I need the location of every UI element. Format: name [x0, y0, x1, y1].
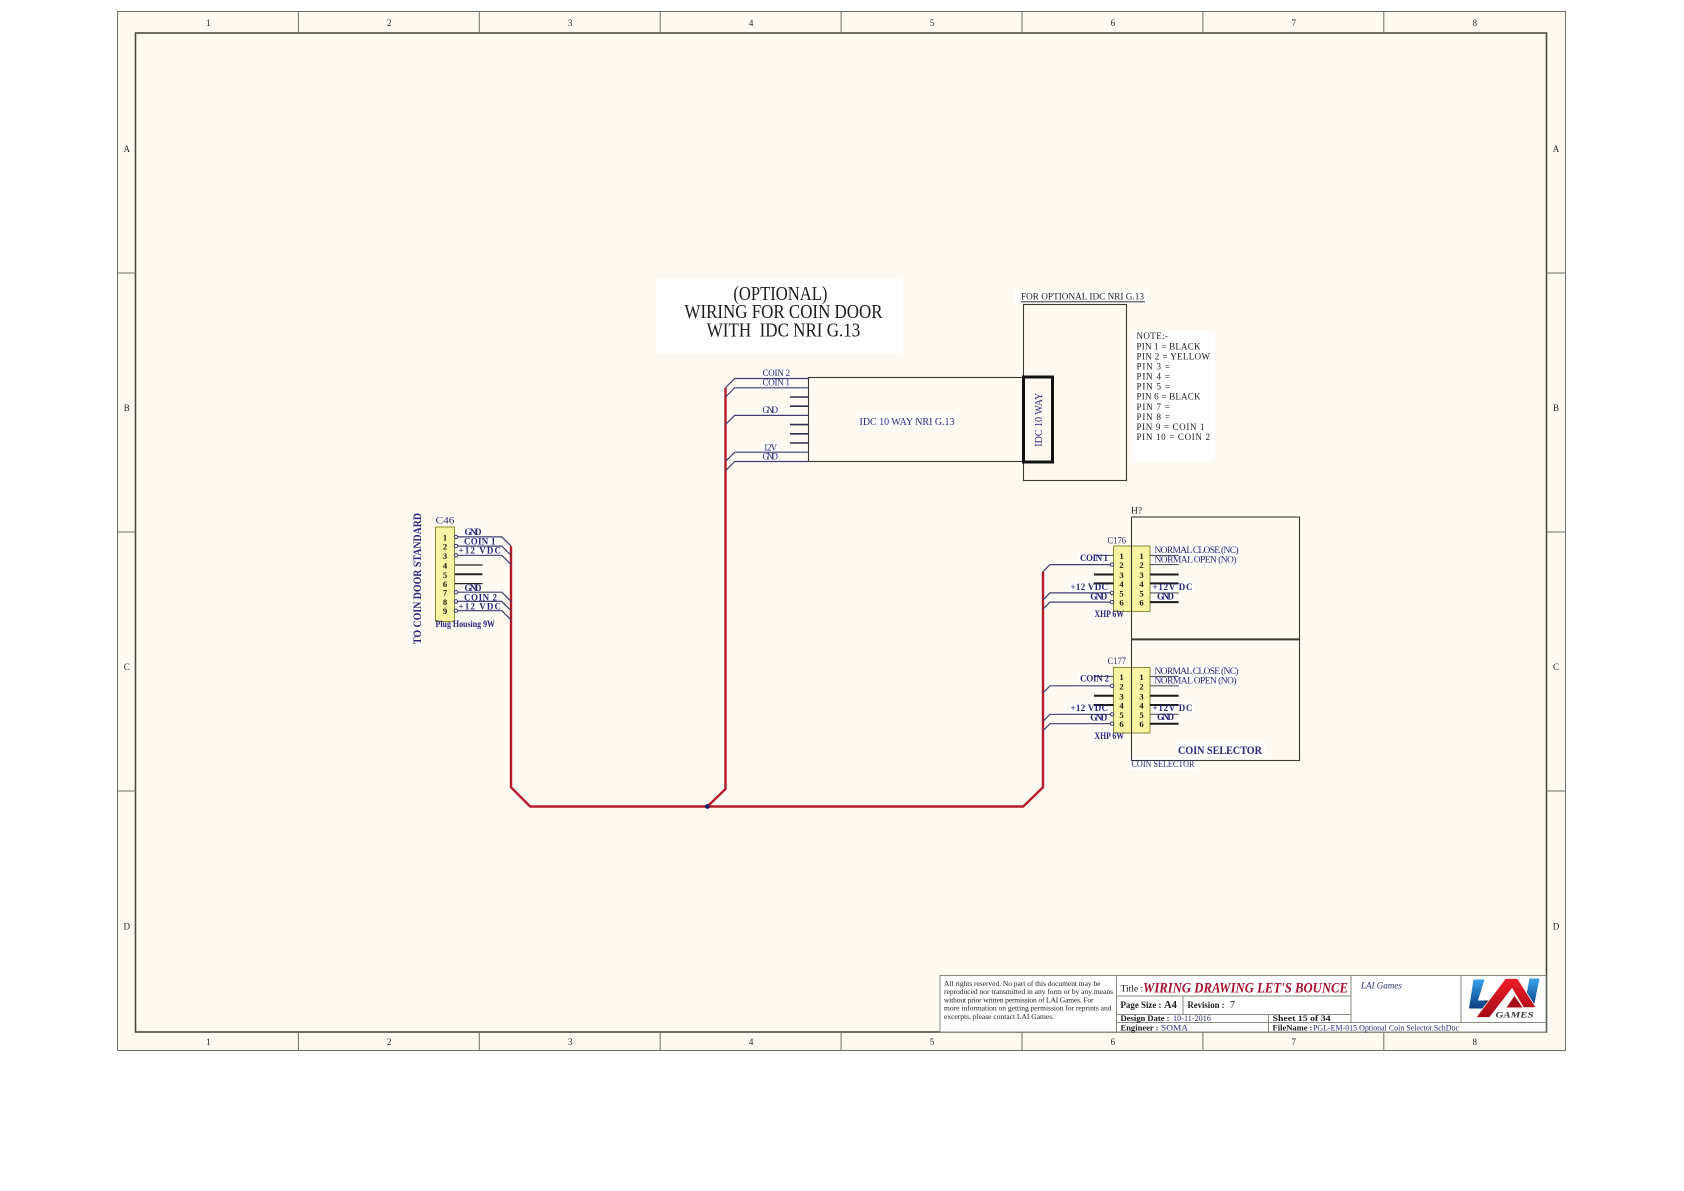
- svg-text:D: D: [1553, 921, 1560, 931]
- svg-text:PIN 8 =: PIN 8 =: [1137, 412, 1171, 422]
- svg-text:A4: A4: [1164, 1000, 1178, 1011]
- svg-text:2: 2: [387, 1037, 392, 1047]
- svg-text:D: D: [124, 921, 131, 931]
- svg-text:PIN 2 = YELLOW: PIN 2 = YELLOW: [1137, 351, 1211, 361]
- svg-text:PIN 9 = COIN 1: PIN 9 = COIN 1: [1137, 422, 1205, 432]
- svg-text:PIN 7 =: PIN 7 =: [1137, 402, 1171, 412]
- svg-text:PIN 4 =: PIN 4 =: [1137, 372, 1171, 382]
- svg-text:Title :: Title :: [1121, 985, 1144, 995]
- svg-text:C46: C46: [436, 516, 455, 526]
- svg-text:6: 6: [1139, 598, 1144, 608]
- svg-text:COIN SELECTOR: COIN SELECTOR: [1178, 743, 1262, 757]
- svg-text:GND: GND: [1090, 712, 1108, 722]
- svg-text:excerpts, please contact LAI G: excerpts, please contact LAI Games.: [944, 1012, 1054, 1021]
- svg-text:H?: H?: [1131, 507, 1142, 517]
- svg-text:2: 2: [1139, 681, 1143, 691]
- svg-text:3: 3: [443, 551, 447, 561]
- svg-text:Design Date :: Design Date :: [1121, 1014, 1170, 1023]
- svg-text:GAMES: GAMES: [1496, 1011, 1535, 1020]
- svg-text:1: 1: [206, 18, 211, 28]
- svg-text:+12 VDC: +12 VDC: [459, 602, 502, 612]
- svg-text:NORMAL OPEN (NO): NORMAL OPEN (NO): [1155, 554, 1237, 565]
- svg-text:C177: C177: [1108, 656, 1127, 666]
- svg-text:Revision :: Revision :: [1188, 1000, 1225, 1010]
- svg-text:Page Size :: Page Size :: [1121, 1000, 1162, 1010]
- svg-text:COIN 1: COIN 1: [763, 377, 791, 387]
- svg-text:COIN 2: COIN 2: [1080, 674, 1110, 684]
- svg-text:LAI Games: LAI Games: [1360, 981, 1402, 991]
- svg-text:GND: GND: [1157, 712, 1175, 722]
- svg-text:7: 7: [1292, 1037, 1297, 1047]
- svg-text:Engineer :: Engineer :: [1121, 1023, 1159, 1032]
- svg-text:5: 5: [930, 1037, 935, 1047]
- svg-text:2: 2: [1119, 560, 1123, 570]
- svg-text:2: 2: [387, 18, 392, 28]
- svg-text:XHP 6W: XHP 6W: [1095, 731, 1125, 741]
- svg-text:B: B: [1553, 403, 1559, 413]
- svg-text:3: 3: [568, 18, 573, 28]
- svg-text:NORMAL OPEN (NO): NORMAL OPEN (NO): [1155, 675, 1237, 686]
- svg-text:IDC 10 WAY: IDC 10 WAY: [1034, 393, 1045, 447]
- svg-text:C: C: [124, 662, 130, 672]
- svg-text:4: 4: [1119, 579, 1124, 589]
- svg-text:8: 8: [1472, 18, 1477, 28]
- svg-text:XHP 6W: XHP 6W: [1095, 609, 1125, 619]
- svg-text:WIRING DRAWING LET'S BOUNCE: WIRING DRAWING LET'S BOUNCE: [1143, 981, 1348, 997]
- svg-text:10-11-2016: 10-11-2016: [1173, 1014, 1211, 1023]
- svg-text:Plug Housing 9W: Plug Housing 9W: [436, 619, 496, 629]
- svg-text:PIN 5 =: PIN 5 =: [1137, 382, 1171, 392]
- svg-text:FileName :: FileName :: [1273, 1023, 1313, 1032]
- svg-text:A: A: [1553, 144, 1560, 154]
- svg-text:GND: GND: [763, 452, 779, 462]
- svg-text:PIN 3 =: PIN 3 =: [1137, 362, 1171, 372]
- svg-text:TO COIN DOOR STANDARD: TO COIN DOOR STANDARD: [412, 513, 424, 644]
- svg-text:C176: C176: [1108, 535, 1127, 545]
- svg-text:C: C: [1553, 662, 1559, 672]
- svg-text:6: 6: [1119, 598, 1124, 608]
- svg-text:B: B: [124, 403, 130, 413]
- svg-text:GND: GND: [1157, 591, 1175, 601]
- svg-text:WITH IDC NRI G.13: WITH IDC NRI G.13: [707, 320, 861, 341]
- svg-text:1: 1: [206, 1037, 211, 1047]
- svg-text:4: 4: [1139, 579, 1144, 589]
- svg-text:COIN 1: COIN 1: [1080, 553, 1109, 563]
- svg-text:4: 4: [749, 18, 754, 28]
- svg-text:3: 3: [568, 1037, 573, 1047]
- svg-text:8: 8: [1472, 1037, 1477, 1047]
- svg-text:GND: GND: [763, 405, 779, 415]
- svg-text:9: 9: [443, 606, 447, 616]
- svg-text:+12 VDC: +12 VDC: [459, 546, 502, 556]
- svg-text:6: 6: [1139, 719, 1144, 729]
- svg-text:COIN SELECTOR: COIN SELECTOR: [1132, 760, 1196, 770]
- svg-text:2: 2: [1119, 681, 1123, 691]
- svg-text:6: 6: [1111, 18, 1116, 28]
- svg-text:2: 2: [1139, 560, 1143, 570]
- svg-text:FOR OPTIONAL IDC NRI G.13: FOR OPTIONAL IDC NRI G.13: [1021, 292, 1144, 303]
- svg-text:PIN 10 = COIN 2: PIN 10 = COIN 2: [1137, 432, 1211, 442]
- svg-text:IDC 10 WAY NRI G.13: IDC 10 WAY NRI G.13: [860, 417, 955, 428]
- svg-text:5: 5: [930, 18, 935, 28]
- svg-text:PIN 6 = BLACK: PIN 6 = BLACK: [1137, 392, 1202, 402]
- svg-text:A: A: [124, 144, 131, 154]
- svg-text:7: 7: [1230, 1000, 1235, 1011]
- svg-text:GND: GND: [1090, 592, 1108, 602]
- svg-text:Sheet 15 of 34: Sheet 15 of 34: [1273, 1014, 1331, 1023]
- svg-text:PGL-EM-015 Optional Coin Selec: PGL-EM-015 Optional Coin Selector.SchDoc: [1313, 1023, 1459, 1032]
- svg-text:SOMA: SOMA: [1161, 1023, 1188, 1032]
- svg-text:6: 6: [1111, 1037, 1116, 1047]
- svg-text:NOTE:-: NOTE:-: [1137, 331, 1169, 341]
- svg-text:7: 7: [1292, 18, 1297, 28]
- svg-text:PIN 1 = BLACK: PIN 1 = BLACK: [1137, 341, 1202, 351]
- svg-text:6: 6: [1119, 719, 1124, 729]
- svg-text:4: 4: [749, 1037, 754, 1047]
